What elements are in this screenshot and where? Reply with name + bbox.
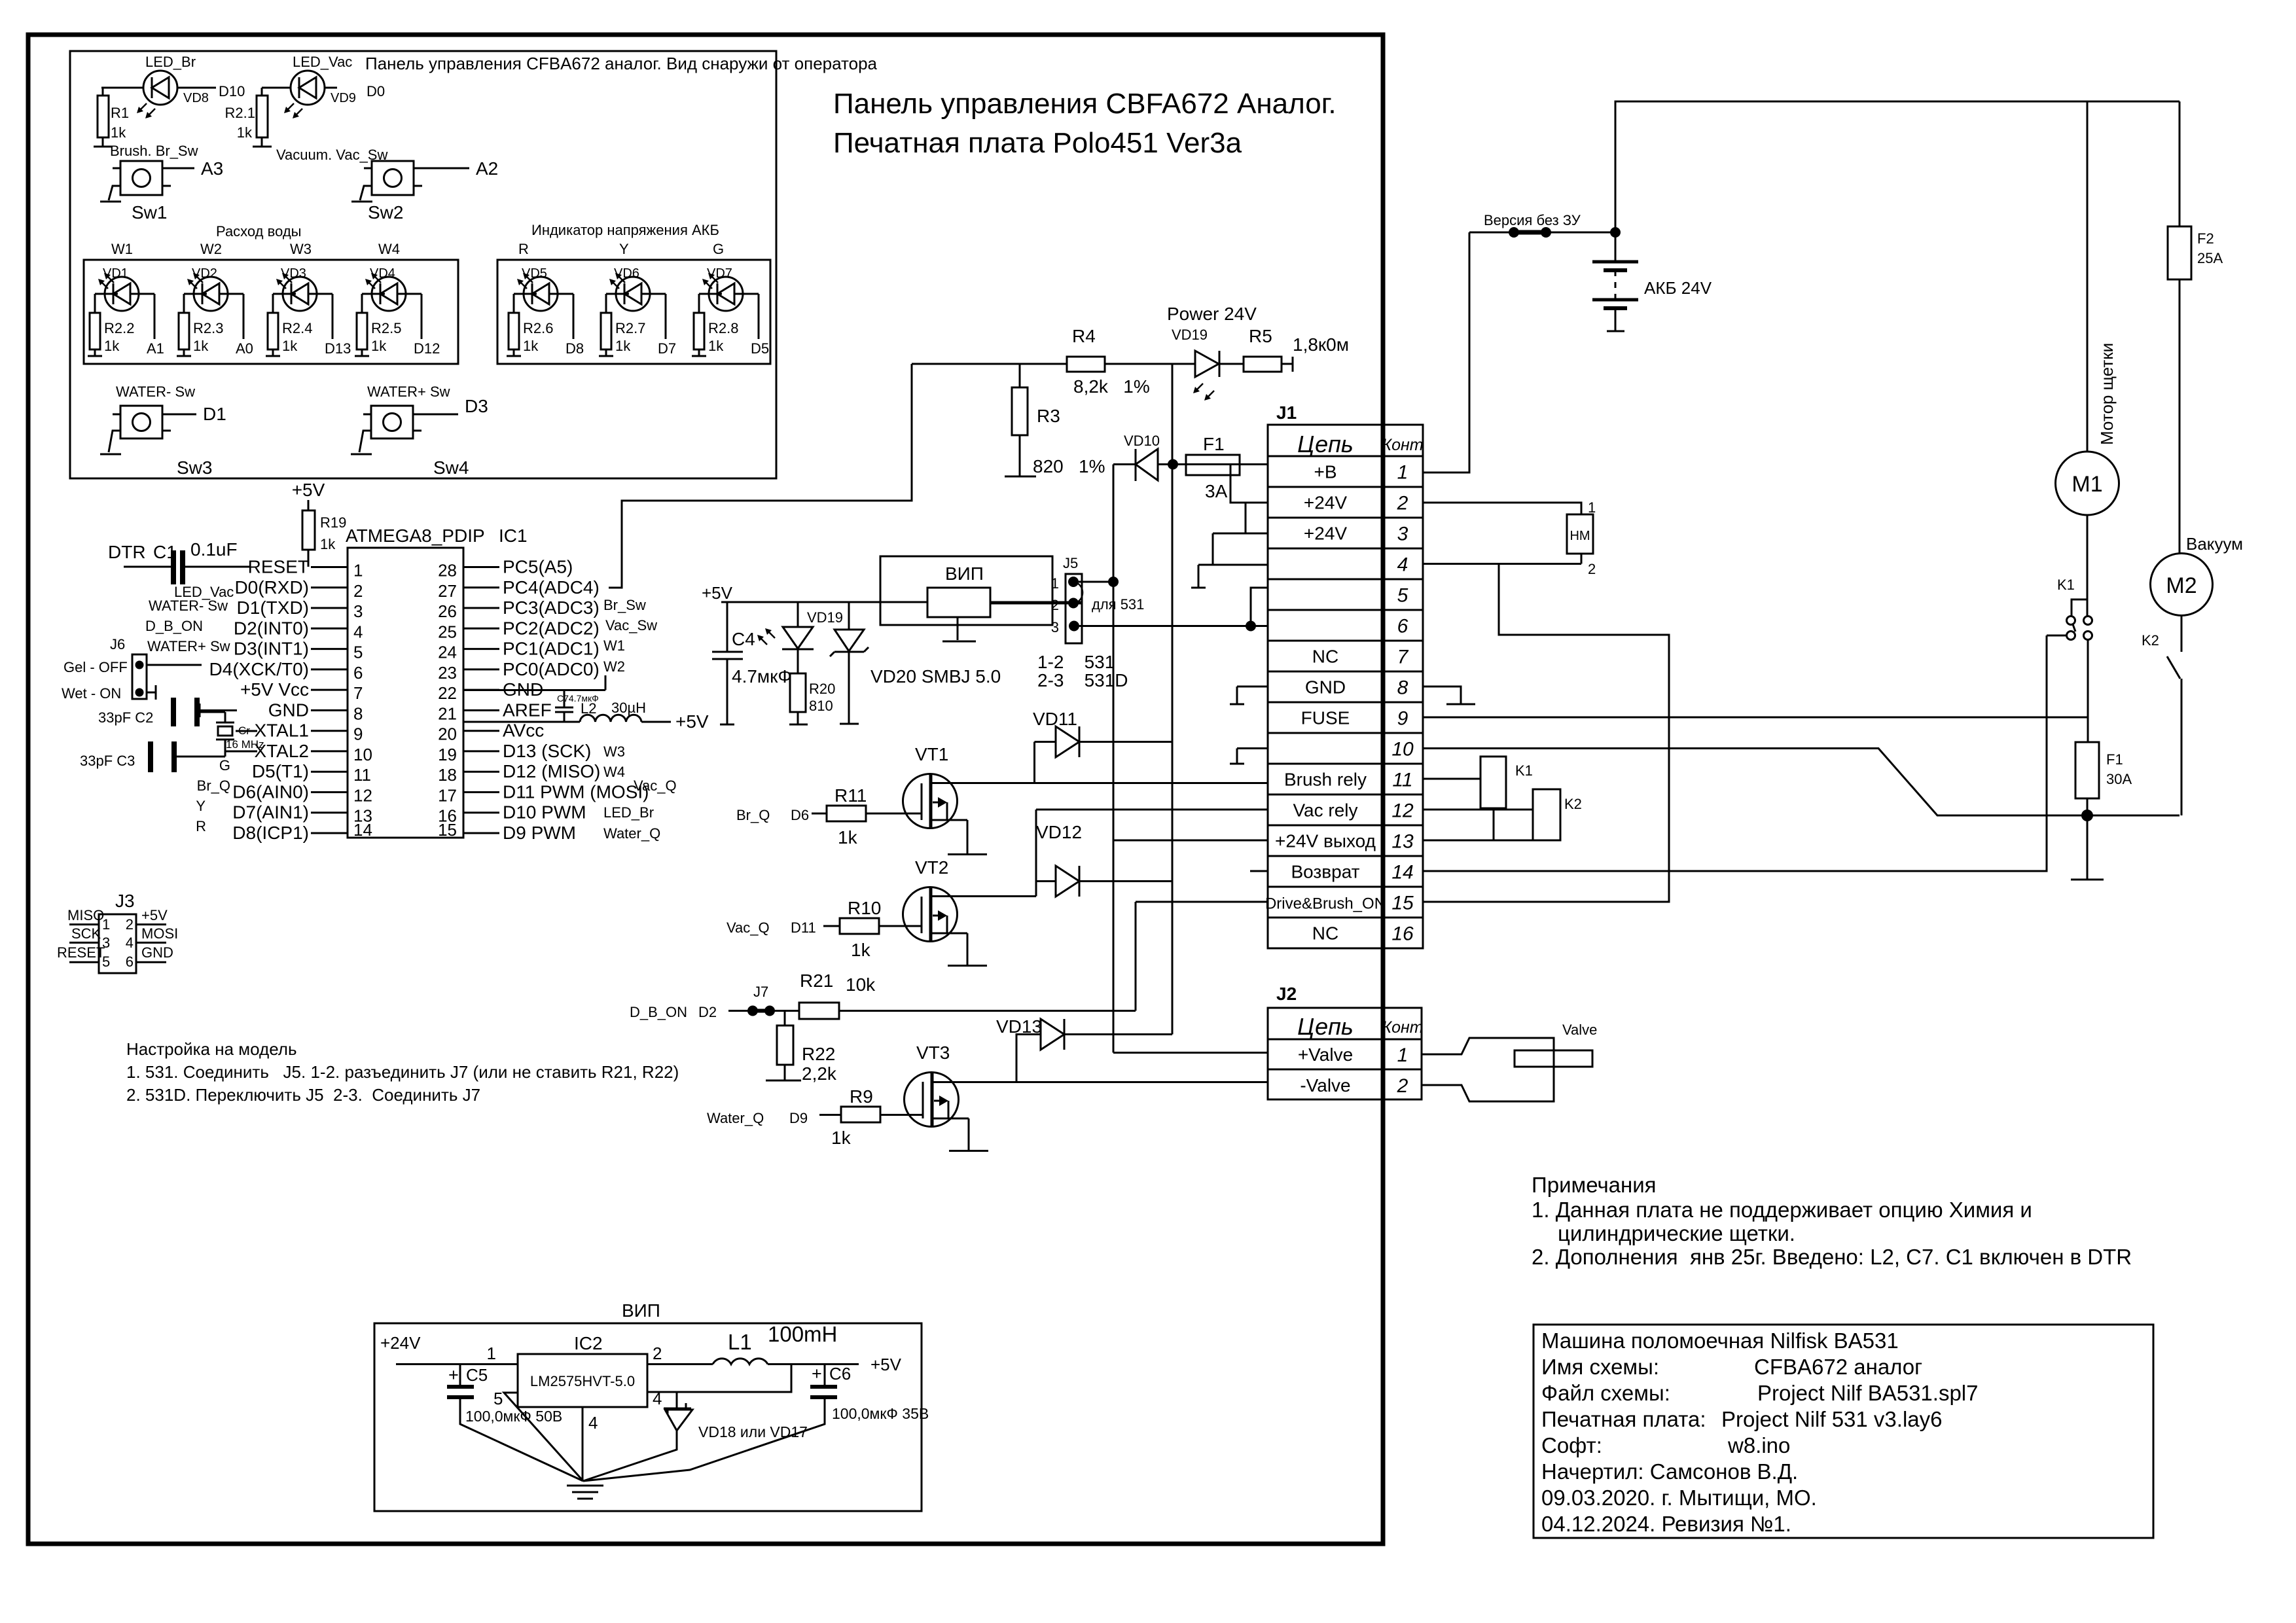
svg-text:WATER+ Sw: WATER+ Sw	[147, 638, 230, 654]
IC1 pin 16 D10 PWM	[438, 802, 586, 826]
wire GND pin22 net	[463, 675, 605, 690]
relay contact K1	[2047, 515, 2092, 742]
svg-text:100mH: 100mH	[768, 1322, 837, 1346]
svg-text:D3: D3	[465, 396, 488, 416]
svg-text:Water_Q: Water_Q	[707, 1110, 764, 1126]
capacitor C3	[80, 740, 225, 772]
switch Sw4 (WATER+)	[351, 383, 488, 478]
svg-text:15: 15	[438, 820, 457, 840]
svg-text:10: 10	[353, 745, 372, 764]
svg-text:W1: W1	[603, 637, 625, 654]
net D8	[565, 294, 584, 357]
svg-text:Мотор щетки: Мотор щетки	[2097, 343, 2117, 445]
svg-text:9: 9	[1397, 708, 1408, 730]
svg-text:R4: R4	[1072, 326, 1096, 346]
IC2 LM2575	[396, 1333, 713, 1407]
svg-text:Sw1: Sw1	[132, 202, 167, 223]
switch Sw1 (Brush)	[100, 143, 223, 223]
svg-text:Br_Q: Br_Q	[197, 777, 230, 794]
svg-text:12: 12	[1391, 800, 1414, 822]
svg-text:L1: L1	[728, 1330, 752, 1354]
svg-text:AVcc: AVcc	[503, 721, 544, 741]
zener VD20 SMBJ 5.0	[830, 602, 1001, 724]
svg-text:2-3 531D: 2-3 531D	[1037, 670, 1128, 690]
IC1 pin 14 D8(ICP1)	[232, 820, 372, 843]
wire J5 pin3 to J1 pins 5,6	[1079, 625, 1268, 627]
svg-text:1k: 1k	[193, 338, 209, 354]
pin10 gnd stub left	[1230, 749, 1268, 764]
svg-text:27: 27	[438, 581, 457, 601]
svg-text:M2: M2	[2166, 573, 2197, 598]
svg-text:+: +	[448, 1365, 459, 1385]
svg-text:+24V: +24V	[1304, 493, 1347, 513]
svg-text:21: 21	[438, 704, 457, 723]
svg-text:Power 24V: Power 24V	[1167, 304, 1257, 324]
svg-text:DTR: DTR	[108, 542, 146, 562]
motor M2 (vacuum)	[2151, 554, 2213, 616]
IC1 pin 28 PC5(A5)	[438, 557, 573, 580]
svg-text:12: 12	[353, 786, 372, 806]
svg-text:R2.6: R2.6	[523, 320, 553, 336]
IC1 pin 8 GND	[268, 700, 363, 723]
svg-text:D11 PWM (MOSI): D11 PWM (MOSI)	[503, 782, 649, 802]
svg-text:NC: NC	[1312, 923, 1338, 944]
wire net A to J2 +Valve	[1113, 1052, 1268, 1054]
IC1 pin 10 XTAL2	[254, 741, 372, 764]
svg-text:CFBA672 аналог: CFBA672 аналог	[1754, 1355, 1922, 1379]
svg-text:22: 22	[438, 683, 457, 703]
svg-text:Расход воды: Расход воды	[216, 223, 301, 240]
svg-text:30A: 30A	[2106, 771, 2132, 787]
net D_B_ON / D2	[630, 1004, 753, 1020]
svg-text:PC4(ADC4): PC4(ADC4)	[503, 577, 600, 597]
wire J1 pin9 FUSE to K1/F1 node	[1423, 717, 2087, 719]
svg-text:PC5(A5): PC5(A5)	[503, 557, 573, 577]
svg-text:LM2575HVT-5.0: LM2575HVT-5.0	[530, 1373, 635, 1389]
svg-text:18: 18	[438, 765, 457, 785]
IC1 ATMEGA8 body	[346, 526, 528, 838]
svg-text:25A: 25A	[2197, 250, 2223, 266]
junction dot VD10/F1/B	[1168, 459, 1178, 470]
resistor R22 2,2k	[766, 1011, 837, 1084]
svg-text:D13: D13	[325, 340, 351, 357]
svg-text:24: 24	[438, 643, 457, 662]
svg-text:11: 11	[353, 765, 371, 785]
svg-text:1: 1	[1397, 462, 1408, 484]
battery indicator box	[497, 260, 770, 364]
LED VD3	[273, 266, 332, 311]
svg-text:4: 4	[588, 1413, 598, 1433]
svg-text:НМ: НМ	[1570, 529, 1590, 543]
svg-text:23: 23	[438, 663, 457, 683]
LED VD19 (on +5V)	[757, 602, 843, 649]
net A0	[236, 294, 253, 357]
LED VD6	[606, 266, 666, 311]
motor M1 (brush motor)	[2056, 452, 2119, 515]
svg-text:6: 6	[1397, 616, 1408, 637]
LED VD1	[95, 266, 154, 311]
vertical net A (+24V out)	[1113, 465, 1115, 1053]
svg-text:+5V: +5V	[702, 583, 733, 603]
svg-text:M1: M1	[2072, 472, 2102, 497]
svg-text:Sw3: Sw3	[177, 457, 212, 478]
svg-text:Water_Q: Water_Q	[603, 825, 660, 842]
svg-text:5: 5	[493, 1389, 503, 1408]
svg-text:R20: R20	[809, 681, 835, 697]
connector J6	[62, 636, 202, 702]
svg-text:+5V: +5V	[870, 1355, 902, 1374]
svg-text:4: 4	[126, 935, 134, 951]
svg-text:Valve: Valve	[1562, 1022, 1597, 1038]
svg-text:3A: 3A	[1205, 481, 1228, 501]
svg-text:F2: F2	[2197, 230, 2214, 247]
svg-text:28: 28	[438, 561, 457, 580]
svg-text:3: 3	[353, 601, 363, 621]
svg-text:4: 4	[353, 622, 363, 641]
crystal Cr 16MHz	[216, 722, 264, 751]
LED VD5	[514, 266, 573, 311]
IC1 pin 19 D13 (SCK)	[438, 741, 591, 764]
svg-text:Brush rely: Brush rely	[1284, 770, 1367, 790]
svg-text:C6: C6	[829, 1364, 851, 1383]
svg-text:8: 8	[1397, 677, 1408, 699]
IC1 GND pin8 tick	[200, 704, 237, 717]
svg-text:R2.1: R2.1	[225, 105, 255, 121]
IC1 pin 1 RESET	[248, 557, 363, 580]
svg-text:F1: F1	[1203, 434, 1225, 454]
svg-text:VD10: VD10	[1124, 433, 1160, 449]
svg-text:R9: R9	[850, 1086, 873, 1107]
svg-text:J3: J3	[115, 891, 135, 911]
svg-text:+5V Vcc: +5V Vcc	[240, 679, 309, 700]
J1 pin5 hook	[1251, 588, 1268, 626]
svg-text:15: 15	[1391, 893, 1414, 914]
battery АКБ 24V	[1592, 227, 1712, 331]
net D12	[414, 294, 440, 357]
IC1 pin 21 AREF	[438, 700, 552, 723]
IC1 pin 5 D3(INT1)	[234, 639, 363, 662]
svg-text:+Valve: +Valve	[1298, 1044, 1353, 1065]
svg-text:2: 2	[1588, 561, 1596, 577]
svg-text:WATER- Sw: WATER- Sw	[149, 597, 228, 614]
svg-text:100,0мкФ 50В: 100,0мкФ 50В	[465, 1408, 562, 1425]
svg-text:2. 531D. Переключить J5 2-3.: 2. 531D. Переключить J5 2-3. Соединить J…	[126, 1085, 480, 1105]
IC1 pin 20 AVcc	[438, 721, 544, 744]
resistor R1	[94, 88, 129, 147]
svg-text:W2: W2	[200, 241, 222, 257]
svg-text:D4(XCK/T0): D4(XCK/T0)	[209, 659, 309, 679]
svg-text:D5(T1): D5(T1)	[252, 761, 309, 781]
svg-text:1k: 1k	[371, 338, 387, 354]
LED VD8 (LED_Br)	[101, 54, 245, 118]
IC1 pin 7 +5V Vcc	[240, 679, 363, 703]
capacitor C5	[447, 1364, 583, 1482]
resistor R4	[912, 326, 1150, 397]
fuse F2 25A	[2168, 101, 2223, 553]
svg-text:GND: GND	[268, 700, 309, 720]
connector J3 (ISP)	[57, 891, 178, 973]
resistor R2.2	[88, 294, 134, 356]
svg-text:D_B_ON: D_B_ON	[630, 1004, 687, 1020]
svg-text:LED_Br: LED_Br	[603, 804, 654, 821]
svg-text:D8(ICP1): D8(ICP1)	[232, 823, 309, 843]
svg-text:J7: J7	[753, 984, 768, 1000]
diode VD11	[1033, 709, 1172, 783]
title block	[1534, 1325, 2153, 1538]
pin8 gnd stub left	[1230, 687, 1268, 704]
IC1 pin 25 PC2(ADC2)	[438, 618, 600, 641]
svg-text:VD18 или VD17: VD18 или VD17	[698, 1423, 808, 1440]
IC1 pin 13 D7(AIN1)	[232, 802, 372, 826]
svg-text:D13 (SCK): D13 (SCK)	[503, 741, 591, 761]
svg-text:для 531: для 531	[1092, 596, 1144, 613]
svg-text:VD19: VD19	[807, 609, 843, 626]
svg-text:Панель управления CBFA672 Анал: Панель управления CBFA672 Аналог.	[833, 88, 1336, 120]
svg-text:A2: A2	[476, 158, 498, 179]
svg-text:Wet - ON: Wet - ON	[62, 685, 121, 702]
svg-text:2: 2	[1397, 493, 1408, 514]
IC1 pin 11 D5(T1)	[252, 761, 371, 785]
inductor L2	[463, 700, 709, 732]
svg-text:1-2 531: 1-2 531	[1037, 652, 1115, 672]
svg-text:RESET: RESET	[248, 557, 309, 577]
svg-text:Софт:: Софт:	[1541, 1433, 1602, 1457]
svg-text:Vac_Q: Vac_Q	[634, 777, 677, 794]
svg-text:1k: 1k	[523, 338, 539, 354]
wire pin13 +24V out	[1113, 840, 1268, 842]
svg-text:Имя схемы:: Имя схемы:	[1541, 1355, 1659, 1379]
resistor R2.3	[177, 294, 223, 356]
wire pin15 Drive&Brush_ON	[1136, 901, 1268, 903]
connector table J2	[1268, 984, 1424, 1099]
svg-text:WATER+ Sw: WATER+ Sw	[367, 383, 450, 400]
svg-text:R2.3: R2.3	[193, 320, 223, 336]
IC1 pin 2 D0(RXD)	[234, 577, 363, 601]
svg-text:+5V: +5V	[292, 480, 325, 500]
resistor R2.8	[692, 294, 738, 356]
svg-text:IC1: IC1	[499, 526, 528, 546]
svg-text:FUSE: FUSE	[1301, 708, 1350, 728]
svg-text:9: 9	[353, 724, 363, 744]
transistor VT1	[903, 744, 968, 829]
svg-text:D6(AIN0): D6(AIN0)	[232, 782, 309, 802]
svg-text:1. Данная плата не поддерживае: 1. Данная плата не поддерживает опцию Хи…	[1532, 1198, 2032, 1222]
svg-text:1: 1	[353, 561, 363, 580]
svg-text:Файл схемы:: Файл схемы:	[1541, 1381, 1670, 1405]
svg-text:17: 17	[438, 786, 457, 806]
svg-text:R1: R1	[111, 105, 129, 121]
svg-text:G: G	[219, 757, 230, 774]
svg-text:100,0мкФ 35В: 100,0мкФ 35В	[832, 1405, 929, 1422]
resistor R21 10k	[770, 902, 1136, 1019]
svg-text:Y: Y	[619, 241, 629, 257]
svg-text:D0: D0	[367, 83, 385, 99]
svg-text:4: 4	[1397, 554, 1408, 576]
pin8 gnd stub right	[1423, 687, 1475, 704]
switch Sw2 (Vacuum)	[276, 147, 498, 223]
svg-text:W1: W1	[111, 241, 133, 257]
svg-text:Вакуум: Вакуум	[2186, 534, 2243, 554]
svg-text:AREF: AREF	[503, 700, 552, 720]
VT1 source to ground	[948, 820, 987, 855]
svg-text:14: 14	[1391, 862, 1413, 883]
svg-text:2: 2	[353, 581, 363, 601]
svg-text:+: +	[812, 1364, 822, 1383]
IC1 pin 26 PC3(ADC3)	[438, 597, 600, 621]
svg-text:+24V выход: +24V выход	[1275, 831, 1376, 851]
svg-text:10: 10	[1391, 739, 1414, 760]
svg-text:D0(RXD): D0(RXD)	[234, 577, 309, 597]
VT3 source to ground	[949, 1118, 988, 1151]
svg-text:Индикатор напряжения АКБ: Индикатор напряжения АКБ	[531, 222, 719, 238]
svg-text:K2: K2	[2142, 632, 2159, 649]
net A1	[147, 294, 164, 357]
svg-text:A1: A1	[147, 340, 164, 357]
svg-text:1. 531. Соединить J5. 1-2. р: 1. 531. Соединить J5. 1-2. разъединить J…	[126, 1062, 679, 1082]
capacitor C4	[712, 602, 792, 724]
svg-text:1k: 1k	[282, 338, 298, 354]
switch contact K2	[2142, 615, 2181, 815]
hour meter HM	[1423, 499, 1596, 577]
resistor R9	[707, 1086, 923, 1148]
svg-text:Drive&Brush_ON: Drive&Brush_ON	[1265, 895, 1386, 913]
svg-text:A0: A0	[236, 340, 253, 357]
jumper J7	[747, 984, 775, 1016]
svg-text:D_B_ON: D_B_ON	[145, 618, 203, 634]
svg-text:R2.4: R2.4	[282, 320, 312, 336]
svg-text:R2.7: R2.7	[615, 320, 645, 336]
svg-text:3: 3	[1397, 524, 1408, 545]
svg-text:W4: W4	[378, 241, 400, 257]
svg-text:33pF C3: 33pF C3	[80, 753, 135, 769]
svg-text:G: G	[713, 241, 724, 257]
svg-text:R3: R3	[1037, 406, 1060, 426]
svg-text:L2: L2	[581, 700, 596, 717]
IC1 pin 6 D4(XCK/T0)	[209, 659, 363, 683]
svg-text:6: 6	[353, 663, 363, 683]
svg-text:1: 1	[1051, 575, 1059, 592]
svg-text:Vac_Sw: Vac_Sw	[605, 617, 657, 633]
svg-text:D1(TXD): D1(TXD)	[237, 597, 309, 618]
fuse F1 3A	[1174, 434, 1268, 501]
svg-text:2: 2	[126, 916, 134, 933]
svg-text:RESET: RESET	[57, 944, 105, 961]
wire J5 pin1 to net A	[1079, 581, 1113, 583]
svg-text:PC1(ADC1): PC1(ADC1)	[503, 639, 600, 659]
ground star	[567, 1486, 603, 1499]
capacitor C1	[124, 539, 251, 584]
svg-text:Печатная плата:: Печатная плата:	[1541, 1407, 1706, 1431]
wire J1 pin10 to motor return	[1423, 749, 2179, 816]
svg-text:IC2: IC2	[574, 1333, 603, 1353]
svg-text:W4: W4	[603, 764, 625, 780]
resistor R2.4	[266, 294, 312, 356]
outer drawing frame	[28, 35, 1383, 1544]
svg-text:WATER- Sw: WATER- Sw	[116, 383, 195, 400]
connector table J1	[1265, 402, 1424, 948]
svg-text:Br_Sw: Br_Sw	[603, 597, 646, 613]
svg-text:W3: W3	[290, 241, 312, 257]
wire VT1 drain to J1 pin11	[931, 782, 1268, 784]
resistor R20	[789, 649, 835, 724]
VT2 source to ground	[948, 933, 987, 966]
svg-text:W2: W2	[603, 658, 625, 675]
net D13	[325, 294, 351, 357]
svg-text:VD8: VD8	[183, 91, 209, 105]
svg-text:09.03.2020. г. Мытищи, МО.: 09.03.2020. г. Мытищи, МО.	[1541, 1486, 1817, 1510]
XTAL wires	[236, 730, 257, 732]
wire J1 pin1 to battery junction	[1423, 232, 1469, 473]
svg-text:K1: K1	[2057, 577, 2075, 593]
wire J1 pin14 Возврат to K1	[1423, 635, 2047, 871]
wire pin3 chassis	[1191, 533, 1268, 588]
svg-text:6: 6	[126, 954, 134, 970]
svg-text:-Valve: -Valve	[1300, 1075, 1350, 1096]
svg-text:Brush. Br_Sw: Brush. Br_Sw	[110, 143, 198, 159]
svg-text:D6: D6	[791, 807, 809, 823]
svg-text:Конт: Конт	[1382, 436, 1423, 454]
resistor R3	[1005, 364, 1105, 476]
svg-text:5: 5	[353, 643, 363, 662]
wire J1 pin13 to K2	[1423, 840, 1560, 842]
svg-text:33pF C2: 33pF C2	[98, 709, 153, 726]
svg-text:D9: D9	[789, 1110, 808, 1126]
resistor R19	[302, 510, 346, 567]
svg-text:19: 19	[438, 745, 457, 764]
LED VD9 (LED_Vac)	[262, 54, 385, 118]
svg-text:820 1%: 820 1%	[1033, 456, 1105, 476]
svg-text:R21: R21	[800, 971, 833, 991]
svg-text:VD19: VD19	[1172, 327, 1208, 343]
resistor R11	[736, 785, 922, 847]
svg-text:MISO: MISO	[67, 907, 104, 923]
svg-text:1k: 1k	[851, 940, 871, 960]
svg-text:LED_Vac: LED_Vac	[293, 54, 352, 70]
svg-text:R: R	[518, 241, 529, 257]
IC1 pin 17 D11 PWM (MOSI)	[438, 782, 649, 806]
svg-text:13: 13	[1391, 831, 1414, 853]
resistor R2.7	[599, 294, 645, 356]
svg-text:1: 1	[1588, 499, 1596, 516]
svg-text:3: 3	[1051, 619, 1059, 635]
svg-text:Sw4: Sw4	[433, 457, 469, 478]
diode VD12	[1036, 822, 1172, 897]
svg-text:Цепь: Цепь	[1297, 431, 1354, 457]
junction dot F1 bottom	[2081, 810, 2093, 821]
svg-text:Версия без ЗУ: Версия без ЗУ	[1484, 212, 1581, 228]
wire battery top rail	[1615, 101, 2179, 232]
relay coil K1	[1423, 757, 1533, 840]
LED VD4	[362, 266, 422, 311]
svg-text:D12: D12	[414, 340, 440, 357]
svg-text:25: 25	[438, 622, 457, 641]
svg-text:2: 2	[653, 1344, 662, 1363]
svg-text:Gel - OFF: Gel - OFF	[63, 659, 128, 675]
svg-text:R5: R5	[1249, 326, 1272, 346]
svg-text:16 MHz: 16 MHz	[226, 738, 264, 751]
water LEDs box	[84, 260, 458, 364]
connector J5	[1037, 555, 1144, 690]
svg-text:Возврат: Возврат	[1291, 862, 1360, 882]
svg-text:8: 8	[353, 704, 363, 723]
diode VD10	[1113, 433, 1174, 481]
svg-text:Br_Q: Br_Q	[736, 807, 770, 823]
svg-text:D9 PWM: D9 PWM	[503, 823, 576, 843]
svg-text:Машина поломоечная Nilfisk BA5: Машина поломоечная Nilfisk BA531	[1541, 1329, 1899, 1353]
IC1 pin 24 PC1(ADC1)	[438, 639, 600, 662]
IC1 pin 23 PC0(ADC0)	[438, 659, 600, 683]
svg-text:J1: J1	[1276, 402, 1297, 423]
